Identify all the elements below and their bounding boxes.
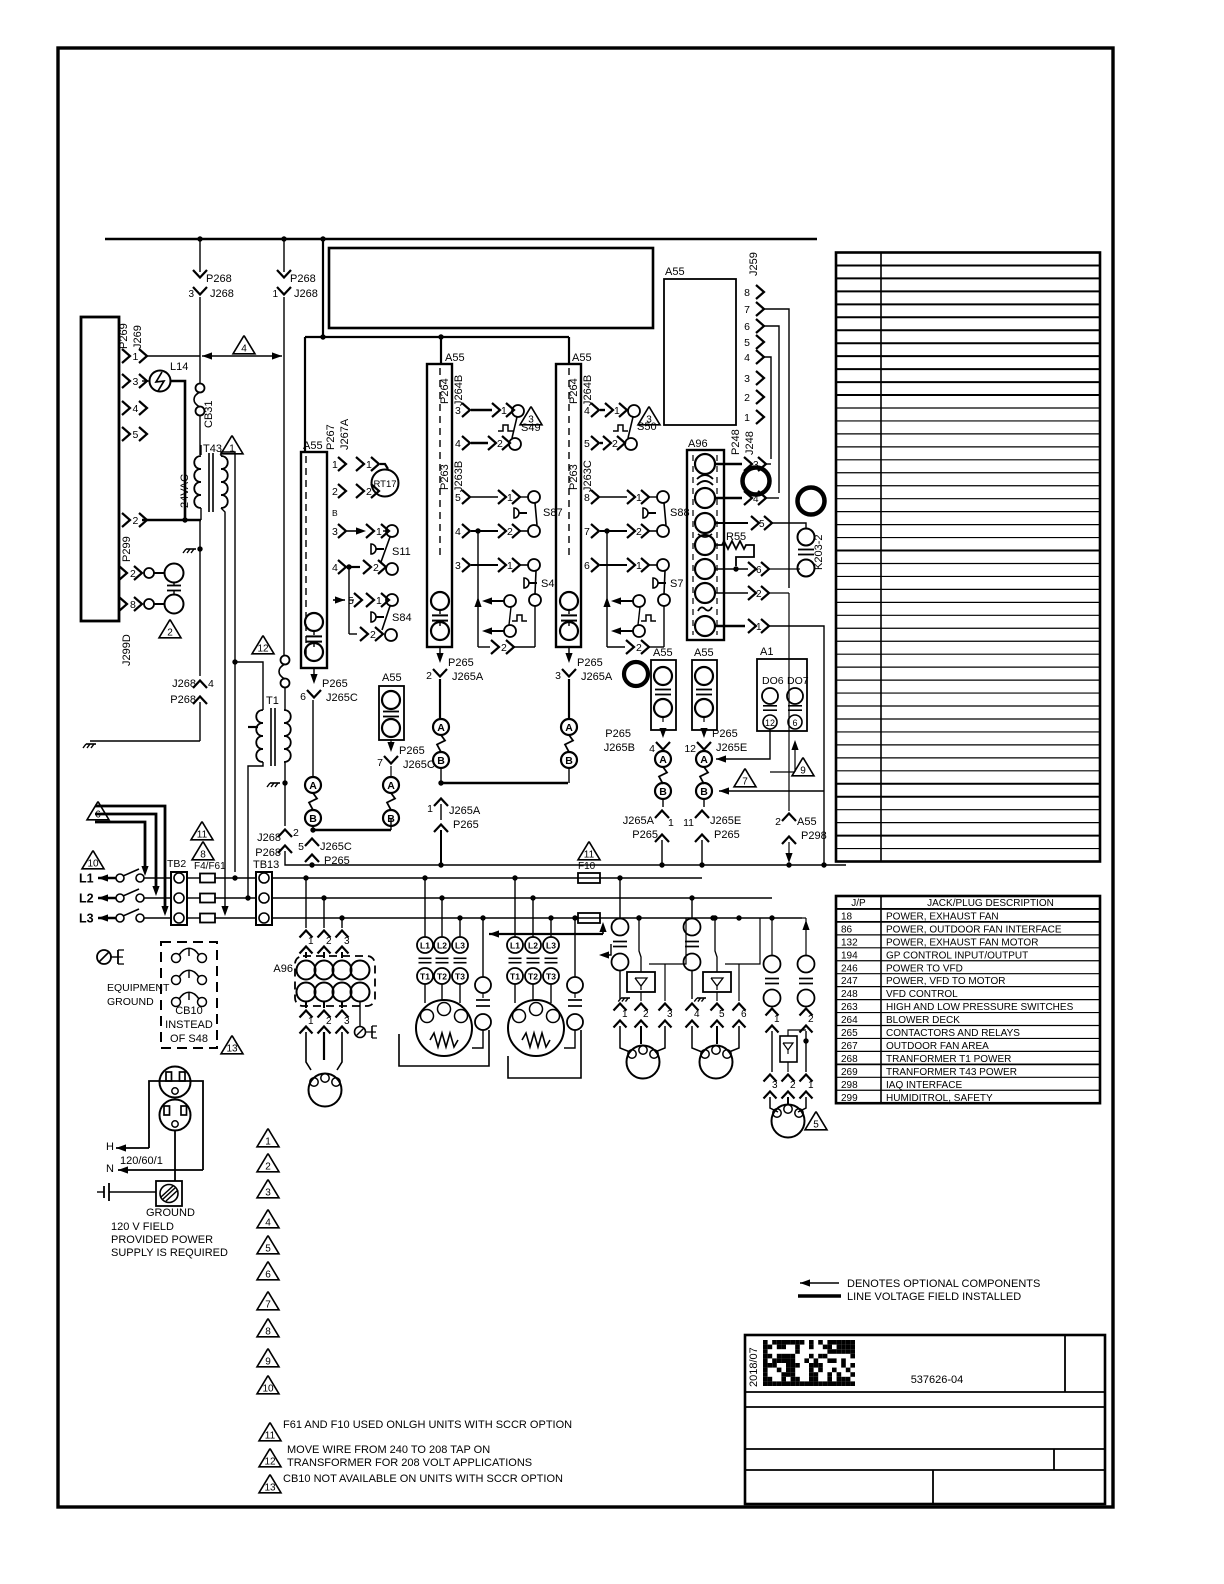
exhaust contact pair (771, 918, 773, 956)
svg-text:2: 2 (366, 486, 372, 498)
svg-text:2: 2 (332, 486, 338, 498)
wire A96-6 to 2 (715, 592, 748, 594)
svg-text:132: 132 (841, 937, 858, 948)
wire ladder B down (439, 679, 441, 719)
svg-text:24VAC: 24VAC (179, 474, 191, 508)
breaker on P268-1 line (281, 656, 290, 665)
svg-text:5: 5 (133, 429, 139, 441)
svg-text:2: 2 (744, 392, 750, 404)
svg-text:T3: T3 (455, 972, 465, 982)
svg-text:4: 4 (744, 352, 750, 364)
svg-text:J269: J269 (132, 325, 144, 349)
note triangles 1-10 (257, 1129, 279, 1147)
svg-text:DO7: DO7 (787, 675, 809, 687)
svg-text:4: 4 (455, 526, 461, 538)
svg-text:3: 3 (455, 405, 461, 417)
pin J269-3 (122, 374, 130, 388)
svg-text:246: 246 (841, 963, 858, 974)
legend optional components (800, 1282, 839, 1284)
svg-text:5: 5 (719, 1009, 725, 1020)
svg-text:T3: T3 (546, 972, 556, 982)
connector P265-6/J265C (down) (310, 674, 317, 684)
wire plug ground (174, 1131, 176, 1181)
svg-text:18: 18 (841, 911, 853, 922)
connector P265-3/J265A (down) (565, 653, 572, 663)
ground chassis T1 (270, 782, 280, 784)
svg-text:3: 3 (133, 376, 139, 388)
splice B col5 (655, 783, 671, 799)
connector J265A-1/P265 up col5 (655, 811, 669, 819)
svg-text:P265: P265 (324, 855, 350, 867)
svg-text:S11: S11 (392, 546, 411, 558)
connector P268-1/J268 (283, 239, 285, 272)
svg-text:R55: R55 (726, 531, 746, 543)
svg-text:CB10 NOT AVAILABLE ON UNITS WI: CB10 NOT AVAILABLE ON UNITS WITH SCCR OP… (283, 1473, 563, 1485)
node bus-P268-1 (281, 236, 286, 241)
relay contact K2 (144, 568, 154, 578)
svg-text:GP CONTROL INPUT/OUTPUT: GP CONTROL INPUT/OUTPUT (886, 950, 1028, 961)
wire J259-6 to J248-4 (764, 326, 779, 493)
switch S7 blade (664, 571, 665, 594)
note triangle 13 (221, 1036, 243, 1054)
drop wires to L buses (232, 875, 237, 880)
arrow feedback left (489, 933, 603, 935)
motor B16 (508, 1000, 564, 1056)
latch contact cluster ladder C (611, 597, 621, 604)
note 11 (259, 1423, 281, 1441)
svg-text:POWER TO VFD: POWER TO VFD (886, 963, 963, 974)
svg-text:A55: A55 (303, 440, 323, 452)
VFD contact pair 1 (619, 878, 621, 919)
svg-text:3: 3 (265, 1188, 271, 1199)
note triangle 5 (805, 1112, 827, 1130)
svg-text:11: 11 (197, 830, 208, 841)
wire DO7 in (770, 771, 795, 773)
svg-text:SUPPLY IS REQUIRED: SUPPLY IS REQUIRED (111, 1247, 228, 1259)
svg-text:A: A (659, 754, 667, 766)
box A55 expansion outline (664, 279, 736, 425)
svg-text:4: 4 (584, 405, 590, 417)
svg-text:F10: F10 (578, 861, 596, 872)
splice A col4 (561, 719, 577, 735)
svg-text:BLOWER DECK: BLOWER DECK (886, 1015, 960, 1026)
splice B col3 (433, 752, 449, 768)
switch S87 blade (535, 503, 537, 525)
svg-text:12: 12 (264, 1457, 276, 1468)
wire J259-2 drop chevrons (782, 814, 796, 822)
svg-text:1: 1 (366, 459, 372, 471)
svg-text:1: 1 (744, 412, 750, 424)
note triangle 2 (159, 620, 181, 638)
svg-text:J/P: J/P (851, 898, 866, 909)
svg-text:1: 1 (622, 1009, 628, 1020)
svg-text:5: 5 (265, 1244, 271, 1255)
svg-text:P265: P265 (714, 829, 740, 841)
wire pin1 to dim (146, 355, 200, 357)
connector J265A-1/P265 (up) (434, 799, 448, 807)
indicator stack ladder C (560, 592, 578, 610)
svg-text:P268: P268 (290, 273, 316, 285)
motor B3 blower (416, 1000, 472, 1056)
svg-text:7: 7 (584, 526, 590, 538)
svg-text:A55: A55 (572, 352, 592, 364)
svg-text:T2: T2 (437, 972, 447, 982)
svg-text:298: 298 (841, 1080, 858, 1091)
node T1-24v (232, 659, 237, 664)
svg-text:10: 10 (87, 859, 99, 870)
switch S50 blade (628, 417, 633, 438)
svg-text:4: 4 (332, 562, 338, 574)
wire L3 run (272, 917, 802, 919)
svg-text:A: A (437, 722, 445, 734)
svg-text:TRANFORMER T43 POWER: TRANFORMER T43 POWER (886, 1067, 1017, 1078)
connector P265-7/J265C (down) (387, 742, 394, 752)
pin P267-5 switch S84 (333, 599, 345, 601)
svg-text:L2: L2 (437, 941, 447, 951)
svg-text:1: 1 (614, 405, 620, 417)
svg-text:5: 5 (759, 519, 765, 530)
ground electrode (103, 1186, 105, 1198)
plug DIN exhaust (770, 1097, 778, 1112)
svg-text:6: 6 (756, 565, 762, 576)
big rectangle A55 main control board outline (329, 248, 653, 328)
svg-text:J265A: J265A (623, 815, 655, 827)
wire chart table (empty) (836, 253, 1100, 862)
svg-text:S49: S49 (521, 422, 541, 434)
svg-text:1: 1 (308, 1016, 314, 1027)
svg-text:6: 6 (265, 1270, 271, 1281)
wire down to A/B col1 (312, 700, 314, 776)
svg-text:CB10: CB10 (175, 1005, 203, 1017)
svg-text:247: 247 (841, 976, 858, 987)
chevrons VFD group 2 (686, 1004, 699, 1011)
svg-text:TRANFORMER T1 POWER: TRANFORMER T1 POWER (886, 1054, 1011, 1065)
svg-text:1: 1 (774, 1014, 780, 1025)
svg-text:11: 11 (584, 850, 595, 861)
wire col3 to col4 (441, 782, 568, 784)
svg-text:2: 2 (507, 526, 513, 538)
svg-text:L2: L2 (79, 892, 94, 906)
svg-text:3: 3 (344, 936, 350, 947)
svg-text:J265A: J265A (581, 671, 613, 683)
svg-text:J268: J268 (210, 288, 234, 300)
wire L1 run (272, 877, 702, 879)
svg-text:T1: T1 (266, 695, 279, 707)
svg-text:TB2: TB2 (167, 858, 186, 870)
svg-text:POWER, EXHAUST FAN MOTOR: POWER, EXHAUST FAN MOTOR (886, 937, 1038, 948)
disconnect switch L3 (116, 914, 124, 922)
relay contact marks (697, 475, 713, 479)
svg-text:9: 9 (265, 1357, 271, 1368)
svg-text:2: 2 (756, 589, 762, 600)
svg-text:J267A: J267A (339, 418, 351, 450)
svg-text:P265: P265 (322, 678, 348, 690)
svg-text:P268: P268 (255, 847, 281, 859)
svg-text:4: 4 (753, 494, 759, 505)
svg-text:269: 269 (841, 1067, 858, 1078)
svg-text:8: 8 (744, 287, 750, 299)
wire T1 primary top (235, 662, 263, 710)
svg-text:B: B (437, 755, 445, 767)
plug DIN condenser 1 (620, 1026, 630, 1052)
svg-text:3: 3 (744, 373, 750, 385)
svg-text:5: 5 (298, 841, 304, 853)
border frame (58, 48, 1113, 1507)
connector box P269/J269 (81, 317, 119, 621)
svg-text:1: 1 (668, 817, 674, 829)
connector P265-5/J265C (up) (305, 839, 319, 847)
svg-text:1: 1 (272, 289, 278, 300)
svg-text:8: 8 (265, 1327, 271, 1338)
svg-text:POWER, VFD TO MOTOR: POWER, VFD TO MOTOR (886, 976, 1005, 987)
diode module 2 (703, 972, 731, 992)
svg-text:6: 6 (741, 1009, 747, 1020)
latch blade (509, 607, 511, 625)
svg-text:2: 2 (133, 515, 139, 527)
svg-text:11: 11 (265, 1431, 276, 1442)
svg-text:1: 1 (308, 936, 314, 947)
svg-text:J259: J259 (748, 252, 760, 276)
svg-text:J268: J268 (257, 832, 281, 844)
svg-text:6: 6 (584, 560, 590, 572)
ground chassis 24v (186, 548, 196, 550)
svg-text:2: 2 (326, 1016, 332, 1027)
svg-text:13: 13 (264, 1483, 276, 1494)
svg-text:2: 2 (497, 438, 503, 450)
ground diode 1 (621, 997, 630, 999)
contactor K2 poles (514, 878, 516, 937)
svg-text:A96: A96 (273, 963, 293, 975)
svg-text:120 V FIELD: 120 V FIELD (111, 1221, 174, 1233)
svg-text:A55: A55 (797, 816, 817, 828)
relay K203-2 (798, 529, 815, 546)
wire J259-4 to J248-3 (764, 357, 771, 459)
svg-text:6: 6 (95, 810, 101, 821)
svg-text:POWER, EXHAUST FAN: POWER, EXHAUST FAN (886, 911, 999, 922)
svg-text:3: 3 (344, 1016, 350, 1027)
svg-text:4: 4 (133, 403, 139, 415)
wires TB13 to A96 contacts (305, 878, 307, 928)
indicator stack ladder B (431, 592, 449, 610)
node bus-P268-3 (197, 236, 202, 241)
svg-text:2: 2 (426, 670, 432, 682)
wire A96-2 to J248-4 (715, 497, 742, 499)
svg-text:7: 7 (742, 777, 748, 788)
svg-text:B: B (332, 508, 338, 518)
wire to left ground (90, 740, 200, 742)
connector board A55 ladder P264B/P263B (427, 364, 452, 647)
svg-text:6: 6 (300, 691, 306, 703)
wire ladder C down (568, 679, 570, 719)
svg-text:A55: A55 (694, 647, 714, 659)
wires contactor to motor B3 (424, 984, 426, 1003)
disconnect switch L1 (116, 874, 124, 882)
svg-text:1: 1 (376, 595, 382, 607)
svg-text:8: 8 (200, 850, 206, 861)
svg-text:B: B (387, 813, 395, 825)
pin J269-1 (122, 349, 130, 363)
svg-text:4: 4 (694, 1009, 700, 1020)
svg-text:S50: S50 (637, 421, 657, 433)
diode module 3 (780, 1036, 797, 1062)
svg-text:S4: S4 (541, 578, 554, 590)
splice A col3 (433, 719, 449, 735)
svg-text:P265: P265 (448, 657, 474, 669)
svg-text:5: 5 (813, 1120, 819, 1131)
wire L2 run (272, 897, 772, 899)
svg-text:3: 3 (188, 289, 194, 300)
svg-text:B: B (659, 786, 667, 798)
splice A col5 (655, 751, 671, 767)
svg-text:2: 2 (167, 628, 173, 639)
svg-text:12: 12 (684, 743, 696, 755)
node col3 (438, 780, 443, 785)
svg-text:2: 2 (790, 1080, 796, 1091)
svg-text:1: 1 (376, 526, 382, 538)
svg-text:3: 3 (332, 526, 338, 538)
connector A96-1/2/3 chevrons upper (300, 931, 313, 938)
fuse F10 (578, 842, 600, 860)
svg-text:1: 1 (133, 351, 139, 363)
svg-text:268: 268 (841, 1054, 858, 1065)
wire aux to motor (472, 1030, 483, 1048)
svg-text:L3: L3 (79, 912, 94, 926)
svg-text:12: 12 (257, 644, 269, 655)
pin J269-2 (122, 513, 130, 527)
svg-text:120/60/1: 120/60/1 (120, 1155, 163, 1167)
fuse F10b (578, 913, 600, 923)
connector A96 lower chevrons (305, 1002, 307, 1008)
svg-text:A1: A1 (760, 646, 773, 658)
svg-text:VFD CONTROL: VFD CONTROL (886, 989, 958, 1000)
svg-text:8: 8 (584, 492, 590, 504)
switch S4 blade (535, 571, 536, 594)
svg-text:PROVIDED POWER: PROVIDED POWER (111, 1234, 213, 1246)
sensor RT17 (372, 470, 399, 497)
svg-text:GROUND: GROUND (146, 1207, 195, 1219)
VFD contact pair 2 (691, 898, 693, 919)
splice A col6 (696, 751, 712, 767)
svg-text:A: A (309, 780, 317, 792)
svg-text:L14: L14 (170, 361, 188, 373)
svg-text:P265: P265 (453, 819, 479, 831)
svg-text:P264: P264 (568, 378, 580, 404)
latch contact cluster ladder B (482, 597, 492, 604)
svg-text:T1: T1 (420, 972, 430, 982)
switch S49 blade (512, 417, 517, 438)
pin J269-4 (122, 401, 130, 415)
wire T43 secondary bottom (221, 508, 225, 906)
wire S4 column (477, 531, 479, 647)
svg-text:2: 2 (265, 1162, 271, 1173)
svg-text:264: 264 (841, 1015, 858, 1026)
svg-text:A: A (387, 780, 395, 792)
plug face 2 (160, 1100, 191, 1131)
svg-text:3: 3 (667, 1009, 673, 1020)
barcode datamatrix (763, 1340, 768, 1345)
disconnect switch L2 (116, 894, 124, 902)
svg-text:P265: P265 (632, 829, 658, 841)
connector P265-2/J265A (down) (436, 653, 443, 663)
svg-text:7: 7 (744, 304, 750, 316)
svg-text:A55: A55 (382, 672, 402, 684)
wire J269-2 to T43 (142, 519, 201, 522)
wire T43 primary to ground node (199, 520, 201, 549)
svg-text:J265E: J265E (710, 815, 741, 827)
plug face 1 (160, 1067, 191, 1098)
connector J265E-11/P265 up col6 (695, 811, 709, 819)
svg-text:DENOTES OPTIONAL COMPONENTS: DENOTES OPTIONAL COMPONENTS (847, 1278, 1040, 1290)
svg-text:P268: P268 (170, 694, 196, 706)
diode module 1 (627, 972, 655, 992)
svg-text:J264B: J264B (453, 375, 465, 406)
svg-text:HIGH AND LOW PRESSURE SWITCHES: HIGH AND LOW PRESSURE SWITCHES (886, 1002, 1074, 1013)
wire A96-3 to 5 (715, 522, 748, 524)
svg-text:3: 3 (455, 560, 461, 572)
ground chassis left (86, 743, 96, 745)
svg-text:263: 263 (841, 1002, 858, 1013)
switch S84 blade (382, 606, 390, 630)
title block (745, 1335, 1105, 1504)
svg-text:4: 4 (208, 678, 214, 690)
svg-text:P248: P248 (730, 429, 742, 455)
svg-text:12: 12 (765, 718, 775, 728)
svg-text:POWER, OUTDOOR FAN INTERFACE: POWER, OUTDOOR FAN INTERFACE (886, 924, 1062, 935)
svg-text:2: 2 (636, 526, 642, 538)
svg-text:2: 2 (643, 1009, 649, 1020)
node ground-24v (197, 546, 202, 551)
svg-text:OUTDOOR FAN AREA: OUTDOOR FAN AREA (886, 1041, 989, 1052)
svg-text:MOVE WIRE FROM 240 TO 208 TAP: MOVE WIRE FROM 240 TO 208 TAP ON (287, 1444, 490, 1456)
svg-text:7: 7 (377, 757, 383, 769)
svg-text:248: 248 (841, 989, 858, 1000)
svg-text:F61 AND F10 USED ONLGH UNITS: F61 AND F10 USED ONLGH UNITS WITH SCCR O… (283, 1419, 572, 1431)
svg-text:K203-2: K203-2 (813, 535, 825, 570)
splice A col1 (305, 777, 321, 793)
svg-text:2: 2 (293, 827, 299, 839)
svg-text:LINE VOLTAGE FIELD INSTALLED: LINE VOLTAGE FIELD INSTALLED (847, 1291, 1021, 1303)
svg-text:L2: L2 (528, 941, 538, 951)
svg-text:1: 1 (265, 1137, 271, 1148)
connector board A55 ladder P264/P263C (556, 364, 581, 647)
svg-text:P299: P299 (121, 536, 133, 562)
svg-text:2: 2 (612, 438, 618, 450)
svg-text:267: 267 (841, 1041, 858, 1052)
svg-text:J263B: J263B (453, 461, 465, 492)
svg-text:INSTEAD: INSTEAD (165, 1019, 213, 1031)
svg-text:B: B (700, 786, 708, 798)
capacitor sym (167, 585, 181, 587)
pin J299D-8 (119, 597, 127, 611)
svg-text:J265C: J265C (320, 841, 352, 853)
note 12 (259, 1449, 281, 1467)
note 13 (259, 1475, 281, 1493)
svg-text:1: 1 (507, 560, 513, 572)
svg-text:P265: P265 (399, 745, 425, 757)
svg-text:IAQ INTERFACE: IAQ INTERFACE (886, 1080, 962, 1091)
note triangle 10 (82, 851, 104, 869)
svg-text:86: 86 (841, 924, 853, 935)
splice wire zig col1 (309, 793, 317, 810)
svg-text:P268: P268 (206, 273, 232, 285)
svg-text:CONTACTORS AND RELAYS: CONTACTORS AND RELAYS (886, 1028, 1020, 1039)
node T1-ground (282, 780, 287, 785)
legend line voltage (798, 1294, 841, 1298)
wire T1 primary bottom (248, 762, 263, 898)
wire arrow to B col6 (719, 790, 824, 792)
svg-text:TB13: TB13 (253, 859, 279, 871)
svg-text:J248: J248 (744, 431, 756, 455)
